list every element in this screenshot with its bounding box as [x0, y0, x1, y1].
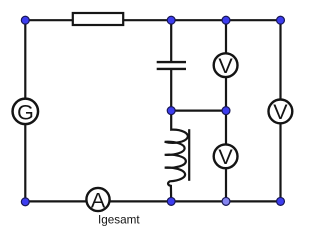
node bottom-right: [277, 197, 285, 205]
svg-text:V: V: [218, 145, 233, 169]
node bottom-mid-1: [167, 197, 175, 205]
wire bottom: [25, 200, 280, 202]
node mid-right: [222, 107, 230, 115]
inductor L coil: [165, 111, 188, 202]
node mid-left: [167, 107, 175, 115]
svg-text:G: G: [17, 100, 34, 124]
resistor R: [73, 13, 123, 25]
wire voltmeter branch: [225, 20, 227, 201]
wire right: [279, 20, 281, 201]
voltmeter V3: [269, 100, 293, 124]
node bottom-mid-2 light: [222, 197, 230, 205]
wire left: [24, 20, 26, 201]
wire middle horizontal: [171, 109, 226, 111]
node top-mid-1: [167, 16, 175, 24]
svg-text:V: V: [218, 54, 233, 78]
svg-text:Igesamt: Igesamt: [98, 214, 140, 227]
inductor core bar: [188, 129, 190, 181]
wire capacitor branch upper: [170, 20, 172, 61]
node top-right: [277, 16, 285, 24]
ammeter A: [86, 188, 109, 211]
node top-mid-2: [222, 16, 230, 24]
capacitor C plate top: [157, 61, 186, 63]
node top-left: [21, 16, 29, 24]
node bottom-left: [21, 198, 29, 206]
generator G: [13, 99, 39, 125]
svg-text:V: V: [273, 100, 288, 124]
capacitor C plate bottom: [157, 68, 186, 70]
voltmeter V1: [214, 53, 238, 77]
wire top: [25, 19, 280, 21]
wire capacitor branch lower: [170, 70, 172, 111]
voltmeter V2: [214, 144, 238, 168]
svg-text:A: A: [91, 188, 106, 212]
